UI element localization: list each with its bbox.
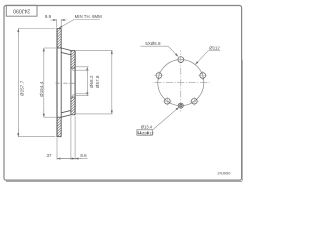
- hat diameter extension bottom: [76, 113, 113, 115]
- hat diameter extension top: [76, 49, 113, 51]
- svg-text:12: 12: [149, 130, 154, 135]
- cone top inner line: [61, 52, 71, 54]
- counterbore leader: [152, 107, 179, 130]
- svg-text:Ø57.8: Ø57.8: [95, 75, 100, 88]
- hole step top: [73, 69, 75, 71]
- svg-text:5XØ6.8: 5XØ6.8: [145, 41, 161, 46]
- hat plate hatch bottom: [71, 97, 75, 115]
- cone bottom inner line: [61, 110, 71, 112]
- hole step bottom: [73, 94, 75, 96]
- friction ring top edge: [57, 28, 62, 30]
- frame shadow bottom: [6, 180, 242, 182]
- locating hole bore: [180, 104, 182, 106]
- title box top-left: [6, 5, 37, 16]
- dimension 9.9 line left: [51, 19, 57, 21]
- svg-text:9.9: 9.9: [45, 14, 52, 19]
- cone top outer line: [61, 48, 71, 50]
- label 112 underline: [208, 50, 220, 52]
- hole step vertical bottom: [72, 95, 74, 97]
- cone bottom outer line: [61, 115, 71, 117]
- dim 37 extension left: [56, 138, 58, 160]
- section centreline: [56, 82, 77, 84]
- note leader arrow: [59, 20, 74, 29]
- dim 257.7 line: [17, 29, 19, 137]
- dim 257.7 extension bottom: [18, 136, 55, 138]
- dim 154.4 line: [43, 48, 45, 117]
- friction ring left face: [56, 29, 58, 137]
- bolt hole lower-left: [164, 98, 170, 104]
- dim 8.6 extension left: [70, 116, 72, 160]
- hat plate hatch top: [71, 50, 75, 68]
- bolt hole upper-right: [200, 73, 206, 79]
- svg-text:Ø112: Ø112: [209, 46, 220, 51]
- friction ring hatch bottom: [57, 117, 62, 137]
- svg-text:24J090: 24J090: [13, 8, 30, 14]
- svg-text:Ø68.2: Ø68.2: [89, 75, 94, 88]
- depth symbol: [147, 131, 149, 134]
- label 5X6.8 leader: [168, 46, 178, 56]
- dim 37 line: [57, 158, 75, 160]
- vertical centreline: [180, 51, 182, 114]
- locating hole counterbore: [178, 103, 183, 108]
- hat plate right mounting face: [74, 50, 76, 114]
- dim 68.2 extension bottom: [76, 95, 89, 97]
- bolt circle: [158, 60, 204, 106]
- friction ring right face: [60, 29, 62, 137]
- dim 154.4 extension bottom: [44, 116, 56, 118]
- horizontal centreline: [153, 82, 210, 84]
- dim 8.6 line: [75, 158, 81, 160]
- frame shadow right: [242, 60, 244, 181]
- svg-text:8.6: 8.6: [80, 153, 87, 158]
- dim 57.8 extension bottom: [76, 93, 89, 95]
- bolt hole lower-right: [191, 98, 197, 104]
- svg-text:MIN TH. 8MM: MIN TH. 8MM: [75, 14, 103, 19]
- svg-text:Ø154.4: Ø154.4: [39, 81, 44, 97]
- centre hole top edge: [71, 67, 75, 69]
- svg-text:37: 37: [46, 153, 52, 158]
- svg-text:Ø13.4: Ø13.4: [141, 125, 153, 130]
- dim 257.7 extension top: [18, 28, 55, 30]
- label 112 leader: [195, 51, 208, 65]
- friction ring hatch top: [57, 29, 62, 49]
- dim 68.2 line: [86, 67, 88, 74]
- friction ring bottom edge: [57, 136, 62, 138]
- dim 57.8 extension top: [76, 69, 89, 71]
- drawing sheet frame: [4, 6, 242, 181]
- counterbore symbol: [138, 131, 141, 134]
- dimension 9.9 line right: [61, 19, 66, 21]
- counterbore frame: [137, 130, 152, 135]
- hat plate top edge: [71, 49, 75, 51]
- friction annulus inner edge bottom: [57, 116, 62, 118]
- svg-text:Ø257.7: Ø257.7: [20, 80, 25, 96]
- note underline: [74, 19, 100, 21]
- hat plate left face: [70, 50, 72, 114]
- dimension 9.9 extension lines: [56, 19, 58, 27]
- dim 68.2 extension top: [76, 66, 89, 68]
- friction annulus inner edge top: [57, 47, 62, 49]
- bolt hole top: [178, 57, 184, 63]
- hole step vertical top: [72, 68, 74, 70]
- bolt hole upper-left: [156, 73, 162, 79]
- dim 154.4 extension top: [44, 47, 56, 49]
- svg-text:24J090: 24J090: [217, 171, 231, 176]
- dim 37/8.6 extension right: [74, 116, 76, 160]
- label 5X6.8 underline: [141, 45, 169, 47]
- hat diameter dimension line: [111, 50, 113, 114]
- hat plate bottom edge: [71, 114, 75, 116]
- centre hole bottom edge: [71, 96, 75, 98]
